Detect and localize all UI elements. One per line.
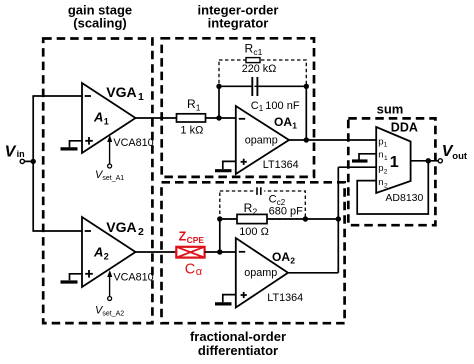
svg-text:2: 2 <box>104 251 109 261</box>
svg-text:α: α <box>196 266 203 278</box>
svg-text:100 Ω: 100 Ω <box>239 226 269 238</box>
wire C1 right down to output <box>305 86 307 140</box>
wire OA1 output to DDA p1 <box>289 139 376 141</box>
wire R2 left <box>220 218 237 220</box>
capacitor C1 100 nF <box>251 77 300 113</box>
node Vout terminal <box>438 143 468 163</box>
node R1 output junction <box>216 115 221 120</box>
wire Vin to junction <box>25 160 34 162</box>
svg-text:680 pF: 680 pF <box>269 205 304 217</box>
gain stage dashed box <box>43 39 152 324</box>
svg-text:1: 1 <box>390 154 399 171</box>
svg-text:VGA: VGA <box>106 84 136 100</box>
ground (VGA2 +) <box>61 274 83 282</box>
CPE element Z_CPE / C_alpha <box>176 230 204 278</box>
svg-text:out: out <box>452 151 468 162</box>
wire DDA output <box>411 160 439 162</box>
svg-text:C: C <box>251 100 259 112</box>
svg-text:1: 1 <box>138 91 144 103</box>
svg-text:in: in <box>17 149 25 159</box>
wire C1 left <box>219 85 251 87</box>
node Vin terminal <box>5 144 25 164</box>
wire DDA n2 feedback loop <box>357 161 428 214</box>
svg-text:OA: OA <box>274 115 292 129</box>
svg-text:1: 1 <box>384 142 388 149</box>
wire R1 to OA1 <box>206 117 236 119</box>
resistor R1 <box>177 97 206 137</box>
svg-text:CPE: CPE <box>187 235 205 245</box>
svg-text:set_A1: set_A1 <box>102 175 124 182</box>
title: fractional-order differentiator <box>190 329 286 358</box>
integer-order integrator dashed box <box>162 38 314 177</box>
svg-text:p: p <box>378 136 383 147</box>
svg-text:VCA810: VCA810 <box>113 137 153 149</box>
svg-text:set_A2: set_A2 <box>102 311 124 318</box>
svg-text:LT1364: LT1364 <box>263 159 299 171</box>
resistor R2 100 Ohm <box>237 201 269 238</box>
node C1 left junction <box>216 84 221 89</box>
wire to VGA2 inverting input <box>32 230 82 232</box>
svg-text:LT1364: LT1364 <box>267 292 303 304</box>
svg-text:C: C <box>269 194 277 206</box>
wire R2 right to feedback node <box>267 218 338 220</box>
Vset_A2 control arrow <box>95 270 124 318</box>
sum dashed box <box>348 118 435 225</box>
svg-text:R: R <box>245 42 254 56</box>
DDA U1 AD8130 <box>376 120 423 204</box>
node DDA output junction <box>426 158 431 163</box>
svg-text:c1: c1 <box>253 47 262 57</box>
title: integer-order integrator <box>198 3 279 31</box>
Vset_A1 control arrow <box>95 135 124 182</box>
ground (DDA n1) <box>352 154 376 161</box>
svg-text:integrator: integrator <box>208 16 269 31</box>
ground (VGA1 +) <box>61 141 83 149</box>
svg-text:1: 1 <box>196 102 201 112</box>
svg-text:1: 1 <box>384 155 388 162</box>
svg-text:R: R <box>244 201 253 215</box>
fractional-order differentiator dashed box <box>162 182 345 323</box>
svg-text:Z: Z <box>179 230 187 244</box>
svg-text:p: p <box>378 163 383 174</box>
svg-text:2: 2 <box>253 207 258 217</box>
wire CPE to OA2 <box>205 251 236 253</box>
svg-text:opamp: opamp <box>244 267 277 279</box>
op-amp OA2 (LT1364) <box>236 238 303 308</box>
Cc2 optional branch dashed box <box>220 191 305 219</box>
resistor Rc1 220 kOhm <box>242 42 276 76</box>
wire OA2 output <box>288 272 338 274</box>
svg-text:2: 2 <box>384 183 388 190</box>
node Vin junction <box>31 159 36 164</box>
wire vertical input bus <box>32 96 34 231</box>
svg-text:2: 2 <box>138 226 144 238</box>
svg-text:220 kΩ: 220 kΩ <box>242 63 276 75</box>
op-amp VGA1 (A1, VCA810) <box>82 83 154 153</box>
svg-text:V: V <box>5 144 17 161</box>
svg-text:1: 1 <box>292 120 297 130</box>
title: gain stage (scaling) <box>68 3 132 31</box>
svg-text:100 nF: 100 nF <box>265 100 300 112</box>
wire OA2 output up to R2 node <box>337 219 339 273</box>
svg-text:OA: OA <box>272 250 290 264</box>
node Cc2 right junction <box>303 216 308 221</box>
svg-text:A: A <box>93 245 103 260</box>
node CPE output junction <box>217 249 222 254</box>
node C1 right junction <box>304 84 309 89</box>
wire C1 right <box>258 85 306 87</box>
svg-text:1: 1 <box>259 104 264 113</box>
op-amp VGA2 (A2, VCA810) <box>82 217 154 287</box>
svg-text:VCA810: VCA810 <box>113 271 153 283</box>
svg-text:R: R <box>187 97 196 111</box>
op-amp OA1 (LT1364) <box>236 106 299 174</box>
svg-text:1 kΩ: 1 kΩ <box>180 125 203 137</box>
svg-text:n: n <box>378 177 383 188</box>
wire to DDA p2 <box>338 166 376 168</box>
ground (OA1 +) <box>215 161 236 170</box>
svg-text:sum: sum <box>377 102 404 117</box>
svg-text:C: C <box>185 262 195 278</box>
node R2 left junction <box>217 216 222 221</box>
wire junction up to C1 <box>218 86 220 118</box>
svg-text:(scaling): (scaling) <box>73 16 126 31</box>
wire junction up to R2 <box>219 219 221 252</box>
svg-text:2: 2 <box>290 255 295 265</box>
svg-text:AD8130: AD8130 <box>385 192 423 204</box>
svg-text:A: A <box>93 110 103 125</box>
node OA1 feedback junction <box>304 137 309 142</box>
Rc1 optional branch dashed box <box>219 60 306 86</box>
svg-text:2: 2 <box>384 168 388 175</box>
svg-text:1: 1 <box>104 116 109 126</box>
svg-text:DDA: DDA <box>391 120 418 134</box>
wire VGA1 out to R1 <box>136 117 177 119</box>
wire to VGA1 inverting input <box>32 95 82 97</box>
capacitor Cc2 680 pF <box>254 186 304 217</box>
wire VGA2 out to CPE <box>136 251 177 253</box>
svg-text:differentiator: differentiator <box>198 343 278 358</box>
node OA2 feedback junction <box>336 216 341 221</box>
svg-text:VGA: VGA <box>106 219 136 235</box>
svg-text:fractional-order: fractional-order <box>190 329 286 344</box>
svg-text:n: n <box>378 150 383 161</box>
ground (OA2 +) <box>215 295 236 304</box>
wire feedback node up to DDA p2 <box>337 167 339 219</box>
svg-text:opamp: opamp <box>245 134 278 146</box>
